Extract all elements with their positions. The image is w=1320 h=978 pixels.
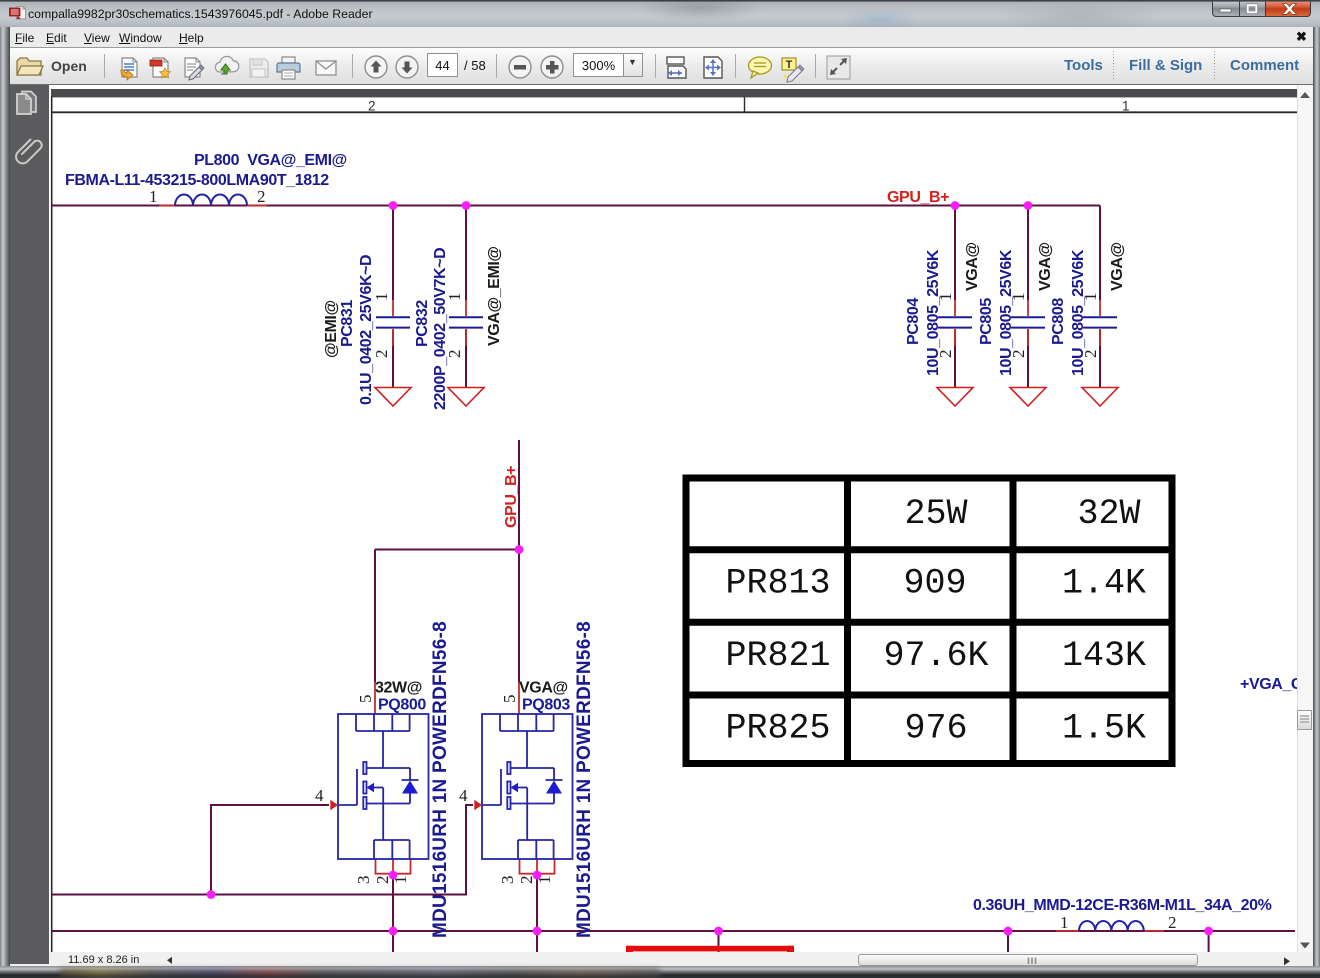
- svg-text:T: T: [786, 59, 793, 71]
